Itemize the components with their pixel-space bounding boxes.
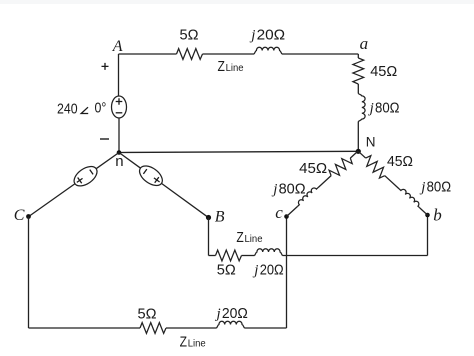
wire between R and L bbox=[203, 53, 255, 55]
angle symbol bbox=[81, 107, 88, 113]
wire source to C bbox=[29, 184, 75, 217]
node b dot bbox=[425, 213, 430, 218]
svg-text:Z: Z bbox=[236, 229, 243, 246]
node N dot bbox=[356, 149, 361, 154]
wire C down bbox=[28, 217, 30, 329]
wire to below c bbox=[245, 327, 287, 329]
source Vcn ellipse bbox=[71, 163, 101, 190]
svg-text:j: j bbox=[249, 28, 255, 44]
wire n to N bbox=[119, 151, 358, 152]
svg-text:0°: 0° bbox=[95, 100, 107, 117]
wire between bbox=[318, 176, 331, 188]
svg-text:B: B bbox=[215, 209, 225, 226]
svg-text:Line: Line bbox=[188, 338, 206, 350]
wire between bbox=[242, 255, 255, 257]
faint top edge strip bbox=[0, 0, 474, 4]
svg-text:5Ω: 5Ω bbox=[217, 262, 236, 279]
wire A corner down to source bbox=[118, 54, 120, 96]
plus sign (node A polarity) bbox=[102, 63, 109, 70]
wire n to source bbox=[96, 153, 119, 169]
svg-text:b: b bbox=[433, 206, 442, 225]
svg-text:N: N bbox=[366, 135, 376, 150]
inductor j80ohm (left branch) bbox=[295, 185, 318, 206]
minus (n side) bbox=[90, 170, 93, 175]
inductor j20ohm (top line) bbox=[254, 47, 282, 54]
resistor 45ohm (right branch) bbox=[362, 154, 388, 180]
wire n to source bbox=[119, 153, 140, 169]
svg-text:Line: Line bbox=[226, 62, 244, 74]
wire source to B bbox=[161, 183, 208, 217]
svg-text:5Ω: 5Ω bbox=[180, 26, 199, 43]
minus sign (above n) bbox=[100, 138, 109, 140]
resistor 45ohm (vertical) bbox=[353, 58, 364, 84]
resistor 5ohm (middle line) bbox=[216, 250, 242, 261]
svg-text:j: j bbox=[215, 306, 221, 322]
resistor R 5ohm (top line) bbox=[177, 49, 203, 60]
svg-text:80Ω: 80Ω bbox=[427, 178, 452, 195]
svg-text:80Ω: 80Ω bbox=[375, 99, 400, 116]
wire L to a corner bbox=[282, 53, 358, 55]
svg-text:45Ω: 45Ω bbox=[387, 153, 413, 170]
svg-text:20Ω: 20Ω bbox=[260, 262, 284, 279]
svg-text:a: a bbox=[360, 34, 369, 53]
wire between bbox=[166, 327, 217, 329]
svg-text:j: j bbox=[419, 179, 425, 195]
wire between bbox=[385, 176, 399, 189]
inductor j80ohm (vertical) bbox=[358, 94, 365, 122]
wire c down to bottom line (crosses middle line) bbox=[286, 217, 288, 329]
source Vbn ellipse bbox=[136, 162, 166, 189]
svg-text:20Ω: 20Ω bbox=[257, 27, 286, 44]
wire A corner to resistor bbox=[119, 53, 177, 55]
resistor 45ohm (left branch) bbox=[327, 154, 353, 180]
node n dot bbox=[117, 150, 122, 155]
svg-text:20Ω: 20Ω bbox=[222, 305, 248, 322]
wire a corner down bbox=[357, 54, 359, 58]
svg-text:5Ω: 5Ω bbox=[138, 306, 157, 323]
svg-text:240: 240 bbox=[57, 100, 78, 117]
inductor j20ohm (middle line) bbox=[255, 249, 283, 256]
svg-text:Z: Z bbox=[180, 334, 187, 351]
resistor 5ohm (bottom line) bbox=[140, 323, 166, 334]
wire to below b bbox=[283, 255, 428, 257]
svg-text:Line: Line bbox=[245, 233, 263, 245]
svg-text:C: C bbox=[14, 207, 25, 224]
minus (n side) bbox=[143, 169, 146, 174]
wire c to inductor bbox=[287, 206, 298, 216]
svg-text:80Ω: 80Ω bbox=[279, 181, 306, 198]
wire to b bbox=[420, 208, 428, 215]
node C dot bbox=[26, 214, 31, 219]
svg-text:j: j bbox=[368, 100, 374, 116]
wire bbox=[357, 84, 359, 94]
node B dot bbox=[206, 215, 211, 220]
svg-text:A: A bbox=[112, 38, 123, 55]
svg-text:45Ω: 45Ω bbox=[299, 160, 327, 177]
plus (C side) bbox=[75, 176, 85, 186]
source Van 240 angle 0 bbox=[112, 96, 127, 118]
svg-text:j: j bbox=[271, 182, 277, 198]
inductor j20ohm (bottom line) bbox=[217, 321, 245, 328]
svg-text:Z: Z bbox=[218, 58, 225, 75]
svg-text:j: j bbox=[252, 263, 258, 279]
svg-text:45Ω: 45Ω bbox=[370, 63, 397, 80]
wire down to N bbox=[357, 122, 359, 152]
wire source to n bbox=[118, 118, 120, 153]
svg-text:c: c bbox=[275, 203, 283, 222]
wire corner to resistor bbox=[209, 255, 216, 257]
plus (B side) bbox=[152, 175, 162, 185]
node c dot bbox=[284, 214, 289, 219]
wire bottom to resistor bbox=[29, 327, 141, 329]
wire up to b bbox=[427, 215, 429, 256]
wire to N bbox=[350, 151, 358, 158]
wire N to resistor bbox=[358, 151, 365, 158]
inductor j80ohm (right branch) bbox=[399, 187, 422, 208]
wire B down bbox=[208, 218, 210, 256]
